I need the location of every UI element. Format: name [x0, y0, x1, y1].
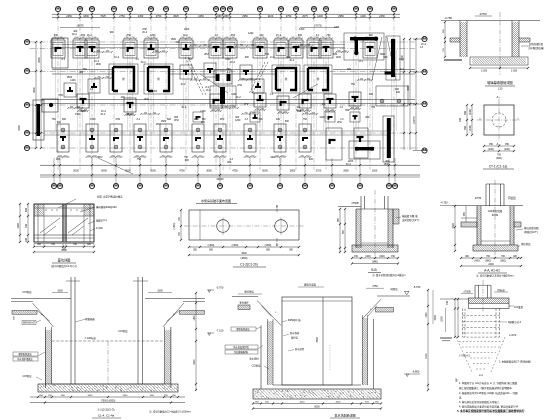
- svg-text:400: 400: [396, 91, 401, 94]
- svg-text:-5.700: -5.700: [413, 285, 421, 289]
- svg-text:4. 基坑回填按设计要求分层夯实回填, 密实度要求0.94.: 4. 基坑回填按设计要求分层夯实回填, 密实度要求0.94.: [459, 405, 519, 409]
- detail pit section 2: [225, 283, 437, 419]
- svg-text:600: 600: [227, 161, 232, 164]
- svg-text:1-1(2-2)(3-3): 1-1(2-2)(3-3): [97, 408, 114, 412]
- svg-text:-5.700: -5.700: [216, 286, 224, 290]
- svg-text:Φ799: Φ799: [492, 214, 499, 217]
- svg-text:6100: 6100: [426, 353, 428, 359]
- svg-text:400: 400: [79, 71, 84, 74]
- svg-text:1500: 1500: [90, 118, 96, 121]
- svg-text:(400): (400): [474, 261, 480, 263]
- detail top-right section: [441, 12, 544, 91]
- svg-text:750: 750: [371, 106, 376, 109]
- svg-text:JC-2: JC-2: [346, 163, 352, 166]
- detail pit section 1: [11, 277, 224, 418]
- shaft square 2: [144, 64, 173, 94]
- svg-text:1500: 1500: [18, 125, 21, 131]
- svg-text:4000: 4000: [300, 402, 306, 404]
- top dimension line: [52, 13, 400, 27]
- svg-text:1200: 1200: [200, 110, 206, 113]
- svg-text:(800): (800): [372, 261, 378, 264]
- plan internal dimension chains: [67, 44, 373, 115]
- svg-text:C20素砼回填: C20素砼回填: [488, 209, 503, 213]
- svg-text:1-200: 1-200: [481, 70, 488, 73]
- detail bottom-left wall section: [17, 195, 123, 269]
- svg-text:7625: 7625: [100, 15, 106, 18]
- svg-text:b=100: b=100: [96, 227, 103, 230]
- svg-text:台阶处理详见: 台阶处理详见: [529, 42, 544, 46]
- svg-text:ZH2: ZH2: [244, 103, 249, 106]
- svg-text:2075: 2075: [302, 15, 308, 18]
- svg-text:400: 400: [121, 96, 126, 99]
- bottom grid bubbles: [51, 183, 397, 188]
- svg-text:350: 350: [505, 143, 510, 146]
- svg-text:JC-2: JC-2: [296, 109, 302, 112]
- svg-text:700: 700: [459, 117, 462, 122]
- svg-text:900: 900: [285, 120, 290, 123]
- svg-text:±750B: ±750B: [351, 202, 359, 205]
- svg-text:ZH2: ZH2: [220, 118, 225, 121]
- row C footings: [42, 92, 361, 116]
- svg-text:400: 400: [365, 116, 370, 119]
- svg-text:1500: 1500: [80, 110, 86, 113]
- notes block: [455, 378, 525, 413]
- svg-text:1500: 1500: [441, 316, 444, 322]
- svg-text:(400): (400): [379, 256, 385, 258]
- svg-text:ZH2: ZH2: [337, 121, 342, 124]
- svg-text:600: 600: [185, 159, 190, 162]
- svg-text:(1500): (1500): [232, 245, 239, 247]
- svg-text:1500: 1500: [434, 315, 437, 321]
- svg-text:900: 900: [110, 31, 115, 34]
- svg-text:900: 900: [383, 56, 388, 59]
- svg-text:5. 未尽事宜按国家现行规范标准及图集施工验收要求执行.: 5. 未尽事宜按国家现行规范标准及图集施工验收要求执行.: [457, 409, 525, 413]
- svg-text:4750: 4750: [232, 170, 238, 173]
- svg-text:C1-2(C1-2b): C1-2(C1-2b): [240, 263, 258, 267]
- plan scattered annotation text: [52, 26, 427, 166]
- row A footings: [51, 34, 377, 68]
- svg-text:梯: 梯: [285, 77, 288, 81]
- svg-text:4000: 4000: [336, 402, 342, 404]
- svg-text:大样图(见结施): 大样图(见结施): [528, 46, 544, 50]
- svg-text:900: 900: [345, 109, 350, 112]
- row B mid footings: [64, 63, 264, 97]
- svg-text:JC-2: JC-2: [114, 56, 120, 59]
- svg-text:600: 600: [201, 121, 206, 124]
- svg-text:素砼垫层: 素砼垫层: [244, 290, 254, 294]
- svg-text:C1-4, C1-4a: C1-4, C1-4a: [98, 414, 115, 418]
- svg-text:ZH2: ZH2: [144, 98, 149, 101]
- svg-text:C15垫层: C15垫层: [118, 329, 128, 333]
- svg-text:CT-1 (C1-1a): CT-1 (C1-1a): [489, 165, 508, 169]
- svg-text:1200: 1200: [70, 79, 76, 82]
- svg-text:5000: 5000: [125, 170, 131, 173]
- svg-text:JC-2: JC-2: [206, 89, 212, 92]
- svg-text:(1300): (1300): [208, 245, 215, 247]
- svg-text:5000: 5000: [101, 170, 107, 173]
- svg-text:2450: 2450: [66, 15, 72, 18]
- svg-text:400: 400: [276, 118, 281, 121]
- svg-text:200: 200: [25, 237, 28, 242]
- svg-text:600: 600: [347, 68, 352, 71]
- svg-text:(4800): (4800): [241, 257, 248, 260]
- svg-text:J10梁宽: J10梁宽: [514, 305, 524, 309]
- foundation beam strips horizontal: [42, 45, 415, 136]
- svg-text:700: 700: [25, 223, 28, 228]
- svg-text:1500: 1500: [127, 113, 133, 116]
- svg-text:-4.750: -4.750: [440, 201, 448, 205]
- svg-text:顶标高: 顶标高: [497, 288, 505, 292]
- svg-text:ZH2: ZH2: [174, 119, 179, 122]
- svg-text:ZH2: ZH2: [116, 118, 121, 121]
- svg-text:4500: 4500: [33, 87, 36, 93]
- shaft square 4: [304, 65, 332, 93]
- svg-text:1500: 1500: [161, 120, 167, 123]
- svg-text:4750: 4750: [179, 170, 185, 173]
- svg-text:750: 750: [303, 118, 308, 121]
- svg-text:ZH2: ZH2: [58, 94, 63, 97]
- svg-text:1200: 1200: [334, 26, 340, 29]
- svg-text:-7.100标高: -7.100标高: [84, 336, 96, 340]
- svg-text:1500: 1500: [372, 170, 378, 173]
- svg-text:(400): (400): [469, 125, 472, 131]
- svg-text:2750: 2750: [119, 15, 125, 18]
- svg-text:1200: 1200: [336, 56, 342, 59]
- svg-text:600: 600: [309, 158, 314, 161]
- svg-text:1500: 1500: [96, 63, 102, 66]
- row D pile cap footings: [57, 118, 312, 158]
- svg-text:600: 600: [176, 41, 181, 44]
- svg-text:2500: 2500: [61, 249, 67, 252]
- svg-text:3625: 3625: [173, 15, 179, 18]
- svg-text:750: 750: [265, 53, 270, 56]
- svg-text:350: 350: [489, 143, 494, 146]
- svg-text:900: 900: [369, 93, 374, 96]
- svg-text:350: 350: [464, 125, 467, 130]
- svg-text:750: 750: [83, 68, 88, 71]
- svg-text:2900: 2900: [38, 57, 41, 63]
- foundation beam strips vertical: [56, 50, 396, 131]
- svg-text:(7075): (7075): [314, 24, 322, 28]
- svg-text:梯: 梯: [122, 77, 125, 81]
- svg-text:1200: 1200: [152, 90, 158, 93]
- top grid bubbles: [55, 6, 396, 17]
- shaft square 1: [109, 64, 138, 94]
- center black column bar: [210, 70, 236, 106]
- svg-text:18075: 18075: [76, 24, 84, 28]
- svg-text:JC-2: JC-2: [100, 113, 106, 116]
- svg-text:1500: 1500: [157, 290, 163, 293]
- svg-text:600: 600: [259, 118, 264, 121]
- detail B-B section: [338, 190, 419, 277]
- svg-text:-6.800: -6.800: [412, 370, 420, 374]
- svg-text:(400): (400): [504, 148, 510, 151]
- svg-text:JC-2: JC-2: [399, 58, 405, 61]
- svg-text:900: 900: [245, 56, 250, 59]
- svg-text:4/750: 4/750: [475, 196, 482, 200]
- svg-text:1200: 1200: [299, 28, 305, 31]
- svg-text:1300: 1300: [17, 223, 20, 229]
- svg-text:B: B: [276, 243, 278, 247]
- svg-text:4/750: 4/750: [480, 12, 487, 16]
- svg-text:600: 600: [25, 207, 28, 212]
- svg-text:1200: 1200: [248, 32, 254, 35]
- svg-text:1500: 1500: [57, 290, 63, 293]
- svg-text:L=972: L=972: [509, 333, 517, 337]
- left tall footing: [33, 86, 408, 140]
- svg-text:JC-2: JC-2: [180, 83, 186, 86]
- svg-text:3800: 3800: [290, 170, 296, 173]
- svg-text:(7500) (8200): (7500) (8200): [101, 400, 116, 403]
- svg-text:1400: 1400: [360, 15, 366, 18]
- svg-text:2. 基础垫层均为C15素砼-100厚, 每边宽出100 -: 2. 基础垫层均为C15素砼-100厚, 每边宽出100 -- 详图: [459, 391, 518, 395]
- svg-text:2700: 2700: [316, 170, 322, 173]
- svg-text:基础梁下翻, 做: 基础梁下翻, 做: [402, 214, 418, 218]
- detail A-A section: [440, 180, 539, 278]
- svg-text:JC-2: JC-2: [289, 59, 295, 62]
- svg-text:2750: 2750: [156, 15, 162, 18]
- right grid bubbles: [413, 36, 427, 153]
- svg-text:钢筋Φ774: 钢筋Φ774: [96, 219, 107, 223]
- svg-text:900: 900: [62, 118, 67, 121]
- svg-text:9000: 9000: [314, 406, 320, 409]
- svg-text:2950: 2950: [338, 15, 344, 18]
- right wall bar: [385, 36, 400, 80]
- shaft square 3: [272, 65, 300, 93]
- svg-text:1500: 1500: [75, 113, 81, 116]
- svg-text:ZH2: ZH2: [204, 53, 209, 56]
- svg-text:5000: 5000: [73, 170, 79, 173]
- svg-text:拉筋, 详见24构造柱做法: 拉筋, 详见24构造柱做法: [97, 195, 123, 199]
- svg-text:预留插筋: 预留插筋: [85, 317, 95, 321]
- svg-text:ZH2: ZH2: [156, 123, 161, 126]
- svg-text:1800: 1800: [83, 15, 89, 18]
- svg-text:600: 600: [57, 121, 62, 124]
- svg-text:(800): (800): [500, 261, 506, 263]
- svg-text:(1400): (1400): [174, 222, 176, 229]
- svg-text:施工规范图集施工, J筋详见结施说明总说明图中.: 施工规范图集施工, J筋详见结施说明总说明图中.: [459, 386, 513, 390]
- svg-text:法同台阶(共4个): 法同台阶(共4个): [402, 218, 419, 222]
- svg-text:4根钢立柱 A: 4根钢立柱 A: [508, 320, 522, 324]
- svg-text:基坑回填详图: 基坑回填详图: [524, 226, 539, 230]
- svg-text:2950: 2950: [242, 15, 248, 18]
- horizontal axis lines: [30, 42, 420, 148]
- svg-text:素砼垫层: 素砼垫层: [521, 242, 531, 246]
- svg-text:650: 650: [217, 15, 222, 18]
- svg-text:(400): (400): [469, 109, 472, 115]
- svg-text:玻璃幕墙基础详图: 玻璃幕墙基础详图: [487, 80, 513, 85]
- svg-text:(1975): (1975): [413, 116, 416, 123]
- svg-text:同四层: 同四层: [508, 196, 516, 200]
- bottom dimension line: [40, 164, 420, 181]
- svg-text:JC-2: JC-2: [181, 106, 187, 109]
- detail C1-2 plan: [174, 198, 304, 267]
- svg-text:B-B: B-B: [371, 268, 376, 272]
- svg-text:900: 900: [56, 158, 61, 161]
- svg-text:基坑详图: 基坑详图: [58, 258, 71, 263]
- svg-text:2450: 2450: [198, 15, 204, 18]
- svg-text:JC-2: JC-2: [230, 61, 236, 64]
- svg-text:3. 基坑开挖后须钎探验槽后方可施工.: 3. 基坑开挖后须钎探验槽后方可施工.: [459, 400, 500, 404]
- svg-text:2650: 2650: [88, 395, 94, 397]
- svg-text:梯: 梯: [317, 77, 320, 81]
- svg-text:2450: 2450: [138, 15, 144, 18]
- svg-text:700: 700: [446, 300, 449, 305]
- svg-text:2100: 2100: [268, 15, 274, 18]
- svg-text:2850: 2850: [343, 170, 349, 173]
- svg-text:400: 400: [188, 58, 193, 61]
- svg-text:ZH2: ZH2: [237, 84, 242, 87]
- svg-text:900: 900: [271, 156, 276, 159]
- svg-text:JC-2: JC-2: [142, 31, 148, 34]
- svg-text:(1500): (1500): [265, 245, 272, 247]
- svg-text:5000: 5000: [150, 170, 156, 173]
- svg-text:横向钢筋Φ10@200: 横向钢筋Φ10@200: [96, 205, 117, 209]
- mid small footings row: [193, 112, 360, 122]
- svg-text:4300: 4300: [194, 359, 196, 365]
- svg-text:±750B: ±750B: [463, 291, 471, 294]
- detail CT-1 plan: [459, 95, 521, 169]
- svg-text:水泵房基础平面布置图: 水泵房基础平面布置图: [201, 198, 231, 203]
- svg-text:-7.100: -7.100: [216, 329, 224, 333]
- svg-text:JC-2: JC-2: [236, 96, 242, 99]
- svg-text:同四层: 同四层: [390, 287, 398, 291]
- svg-text:3050: 3050: [206, 170, 212, 173]
- svg-text:350: 350: [464, 110, 467, 115]
- svg-text:1200: 1200: [235, 119, 241, 122]
- svg-text:(括号内数值为C1-3尺寸): (括号内数值为C1-3尺寸): [51, 264, 77, 268]
- svg-text:2450: 2450: [379, 15, 385, 18]
- detail bottom-right pile cap: [440, 280, 531, 377]
- svg-text:1200: 1200: [319, 116, 325, 119]
- svg-text:4600: 4600: [241, 252, 247, 255]
- svg-text:A←: A←: [496, 95, 501, 99]
- row A thick wall L: [344, 33, 384, 60]
- svg-text:-4.750: -4.750: [444, 16, 452, 20]
- svg-text:A←: A←: [496, 142, 501, 146]
- svg-text:4500: 4500: [407, 85, 410, 91]
- left grid bubbles: [24, 39, 29, 150]
- svg-text:ZH2: ZH2: [98, 156, 103, 159]
- svg-text:1:20: 1:20: [498, 88, 503, 91]
- svg-text:600: 600: [167, 118, 172, 121]
- svg-text:1. 本图基础采用C7-(天然地基): 1. 本图基础采用C7-(天然地基): [499, 360, 531, 364]
- left vertical dimension: [18, 41, 42, 149]
- svg-text:A-A, A1-A1: A-A, A1-A1: [484, 269, 500, 273]
- row D right footings: [326, 116, 394, 162]
- svg-text:梯: 梯: [157, 77, 160, 81]
- svg-text:7500: 7500: [316, 337, 319, 343]
- svg-text:44600: 44600: [216, 177, 224, 181]
- svg-text:(800): (800): [496, 157, 502, 160]
- svg-text:B: B: [276, 205, 278, 209]
- svg-text:5000: 5000: [262, 170, 268, 173]
- svg-text:C15垫层: C15垫层: [22, 290, 32, 294]
- svg-text:1400: 1400: [194, 315, 196, 321]
- svg-text:1200: 1200: [184, 28, 190, 31]
- svg-text:1500: 1500: [452, 223, 455, 229]
- svg-text:JC-2: JC-2: [72, 33, 78, 36]
- svg-text:4750: 4750: [372, 285, 378, 288]
- svg-text:750: 750: [52, 118, 57, 121]
- bottom grid vertical stems: [54, 158, 395, 183]
- right vertical dimension: [401, 38, 417, 150]
- svg-text:(本图共10个): (本图共10个): [524, 230, 538, 234]
- svg-text:650: 650: [224, 15, 229, 18]
- svg-text:750: 750: [351, 83, 356, 86]
- svg-text:1200: 1200: [317, 15, 323, 18]
- svg-text:2200: 2200: [488, 263, 494, 266]
- vertical grid lines: [58, 17, 394, 170]
- svg-text:1. 本图尺寸以 mm计标高以 m 计, 详图均按 施工图集: 1. 本图尺寸以 mm计标高以 m 计, 详图均按 施工图集: [459, 381, 518, 385]
- svg-text:见.: 见.: [459, 395, 463, 399]
- svg-text:2750: 2750: [286, 15, 292, 18]
- svg-text:(400): (400): [488, 148, 494, 151]
- svg-text:JC-2: JC-2: [141, 61, 147, 64]
- svg-text:750: 750: [137, 158, 142, 161]
- svg-text:建筑完成面: 建筑完成面: [304, 283, 317, 287]
- svg-text:1500: 1500: [426, 312, 428, 318]
- plan leader diagonals: [98, 37, 396, 174]
- svg-text:(400): (400): [365, 256, 371, 258]
- svg-text:2650: 2650: [123, 395, 129, 397]
- svg-text:(-7.88)-6.5: (-7.88)-6.5: [459, 356, 470, 358]
- svg-text:集水坑配筋详图: 集水坑配筋详图: [334, 413, 355, 418]
- svg-text:1-200: 1-200: [511, 70, 518, 73]
